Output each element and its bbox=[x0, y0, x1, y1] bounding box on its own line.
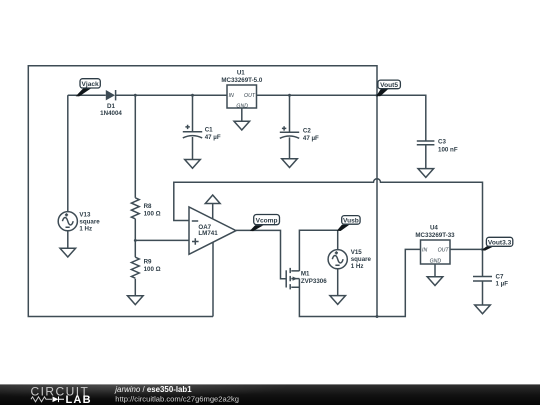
wire divider node to op-amp + input bbox=[135, 239, 189, 241]
footer bar bbox=[0, 384, 540, 405]
voltage regulator U4 bbox=[415, 225, 455, 265]
svg-text:Vout5: Vout5 bbox=[380, 82, 398, 89]
resistor R9 bbox=[131, 257, 160, 278]
net flag Vout3.3 bbox=[482, 237, 513, 250]
wire U4 GND pin bbox=[434, 264, 436, 277]
capacitor C7 bbox=[473, 273, 508, 287]
wire C3 to ground bbox=[425, 145, 427, 169]
svg-text:Vout3.3: Vout3.3 bbox=[488, 239, 512, 246]
svg-text:Vjack: Vjack bbox=[81, 81, 99, 88]
svg-text:jarwino / ese350-lab1: jarwino / ese350-lab1 bbox=[114, 385, 192, 394]
ground (C2) bbox=[282, 159, 298, 168]
power supply arrow (op-amp VCC) bbox=[205, 195, 220, 219]
svg-text:1N4004: 1N4004 bbox=[100, 110, 122, 117]
capacitor C3 bbox=[417, 139, 458, 154]
node junction at C1 bbox=[191, 94, 194, 97]
ground (C7) bbox=[475, 305, 491, 314]
node junction at divider bbox=[134, 239, 137, 242]
voltage regulator U1 bbox=[221, 70, 262, 110]
node junction at Vout5 bbox=[376, 94, 379, 97]
ground (V13) bbox=[60, 248, 76, 257]
wire D1 cathode to U1 IN bbox=[116, 94, 227, 96]
capacitor C1 (polarized) bbox=[183, 125, 221, 141]
wire Vjack to D1 anode bbox=[68, 94, 106, 96]
svg-text:IN: IN bbox=[422, 247, 427, 253]
svg-text:ZVP3306: ZVP3306 bbox=[301, 278, 327, 285]
wire U1 GND pin bbox=[241, 108, 243, 121]
svg-text:R8: R8 bbox=[144, 203, 152, 210]
wire U1 OUT to Vout5 node bbox=[257, 94, 378, 96]
wire U4 OUT to Vout3.3 node bbox=[450, 248, 483, 250]
wire Vout3.3 node down to C7 bbox=[482, 249, 484, 276]
wire Vout5 rail down to bottom rail bbox=[376, 95, 378, 316]
wire outer loop: Vout5 top border, left border, bottom to op-amp VEE bbox=[28, 66, 377, 317]
svg-text:OUT: OUT bbox=[438, 247, 450, 253]
svg-text:http://circuitlab.com/c27g6mge: http://circuitlab.com/c27g6mge2a2kg bbox=[115, 395, 239, 404]
op-amp OA7 bbox=[189, 207, 236, 254]
ground (C1) bbox=[185, 160, 201, 169]
wire Vout5 node to C3 bbox=[377, 95, 426, 141]
wire op-amp - input to Vout3.3 sense (hops over Vout5 rail) bbox=[174, 179, 483, 250]
svg-text:OUT: OUT bbox=[244, 93, 256, 99]
svg-text:1 µF: 1 µF bbox=[496, 281, 509, 288]
node junction at C2 bbox=[288, 94, 291, 97]
wire R9 to ground bbox=[134, 279, 136, 296]
svg-text:square: square bbox=[351, 256, 372, 263]
wire C7 to ground bbox=[482, 281, 484, 305]
wire M1 source to bottom rail to U4 IN bbox=[299, 249, 420, 316]
ground (U4) bbox=[427, 277, 443, 286]
wire Vusb node down to V15 bbox=[337, 230, 339, 250]
svg-text:M1: M1 bbox=[301, 270, 310, 277]
svg-text:U4: U4 bbox=[430, 225, 438, 232]
svg-text:V15: V15 bbox=[351, 249, 363, 256]
wire V13 to ground bbox=[67, 231, 69, 248]
svg-text:GND: GND bbox=[236, 104, 248, 110]
net flag Vcomp bbox=[250, 215, 280, 232]
svg-text:MC33269T-5.0: MC33269T-5.0 bbox=[221, 77, 262, 84]
svg-text:47 µF: 47 µF bbox=[205, 134, 221, 141]
svg-text:C7: C7 bbox=[496, 273, 504, 280]
svg-text:Vusb: Vusb bbox=[343, 218, 359, 225]
net flag Vout5 bbox=[376, 80, 400, 96]
wire M1 drain up to Vusb node bbox=[299, 230, 337, 271]
voltage source V15 bbox=[328, 249, 371, 270]
wire divider node to R9 bbox=[134, 240, 136, 257]
svg-text:C1: C1 bbox=[205, 127, 213, 134]
svg-text:IN: IN bbox=[229, 93, 234, 99]
svg-text:U1: U1 bbox=[237, 70, 245, 77]
ground (V15) bbox=[330, 296, 346, 305]
wire R8 to divider node bbox=[134, 219, 136, 241]
wire op-amp VEE down bbox=[212, 242, 214, 317]
wire V15 to ground bbox=[337, 269, 339, 296]
capacitor C2 (polarized) bbox=[280, 126, 319, 142]
svg-text:LM741: LM741 bbox=[198, 230, 218, 237]
wire node down to R8 bbox=[134, 95, 136, 198]
diode D1 bbox=[100, 90, 122, 117]
svg-text:R9: R9 bbox=[144, 258, 152, 265]
svg-text:GND: GND bbox=[430, 258, 442, 264]
node junction at D1/R8 bbox=[134, 94, 137, 97]
svg-text:100 Ω: 100 Ω bbox=[144, 211, 161, 218]
svg-text:100 nF: 100 nF bbox=[438, 147, 458, 154]
voltage source V13 bbox=[58, 211, 100, 232]
svg-text:Vcomp: Vcomp bbox=[256, 217, 278, 224]
CircuitLab logo bbox=[31, 384, 92, 405]
svg-text:C2: C2 bbox=[303, 127, 311, 134]
wire C2 stem bbox=[289, 95, 291, 159]
svg-text:100 Ω: 100 Ω bbox=[144, 266, 161, 273]
wire C1 stem bbox=[192, 95, 194, 159]
transistor M1 (PMOS) bbox=[286, 268, 327, 290]
net flag Vjack bbox=[76, 79, 101, 97]
wire Vjack down to V13 bbox=[67, 95, 69, 211]
wire op-amp output to Vcomp and M1 gate bbox=[236, 230, 286, 278]
svg-text:V13: V13 bbox=[79, 211, 91, 218]
ground (C3) bbox=[418, 169, 434, 178]
ground (U1) bbox=[234, 121, 250, 130]
svg-text:D1: D1 bbox=[107, 103, 115, 110]
svg-text:MC33269T-33: MC33269T-33 bbox=[415, 232, 455, 239]
svg-text:C3: C3 bbox=[438, 139, 446, 146]
resistor R8 bbox=[131, 198, 160, 219]
node junction at Vout3.3 bbox=[481, 248, 484, 251]
net flag Vusb bbox=[337, 216, 360, 231]
svg-text:47 µF: 47 µF bbox=[303, 135, 319, 142]
svg-text:1 Hz: 1 Hz bbox=[79, 225, 92, 232]
svg-text:LAB: LAB bbox=[66, 394, 92, 405]
node junction at bottom rail bbox=[376, 315, 379, 318]
ground (R9) bbox=[128, 296, 144, 305]
svg-text:1 Hz: 1 Hz bbox=[351, 263, 364, 270]
